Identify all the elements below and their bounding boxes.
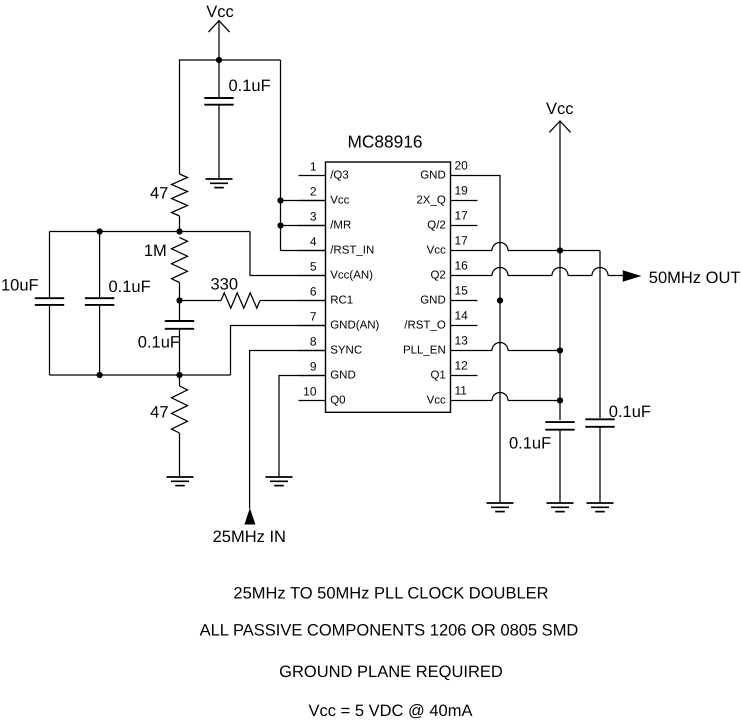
ground (pin 9): [266, 477, 293, 486]
ground (below C6): [547, 503, 574, 512]
wire pin 11 Vcc: [478, 400, 493, 402]
pin 17 Q/2 (right): [451, 225, 478, 227]
svg-text:330: 330: [211, 276, 239, 294]
pin 15 GND (right): [451, 300, 478, 302]
pin 16 Q2 (right): [451, 275, 478, 277]
svg-text:Q/2: Q/2: [427, 220, 446, 232]
wire pin 16 Q2 output: [478, 275, 493, 277]
wire pin 8 SYNC to 25MHz input: [250, 351, 326, 509]
ground (below C1): [206, 179, 233, 188]
wire pin 13 PLL_EN: [478, 350, 493, 352]
junction mid rail / R1-R2: [176, 228, 182, 234]
junction pin 13 / Vcc bus: [557, 347, 563, 353]
svg-text:20: 20: [455, 159, 469, 173]
wire mid rail: [50, 231, 251, 233]
svg-text:/RST_IN: /RST_IN: [330, 245, 374, 257]
wire mid rail to pin 5: [250, 232, 326, 276]
svg-text:5: 5: [310, 260, 317, 274]
svg-text:PLL_EN: PLL_EN: [403, 345, 446, 357]
pin 4 /RST_IN (left): [299, 250, 326, 252]
svg-text:/Q3: /Q3: [330, 170, 349, 182]
pin 1 /Q3 (left): [299, 175, 326, 177]
pin 2 Vcc (left): [299, 200, 326, 202]
svg-text:GND: GND: [330, 370, 356, 382]
svg-text:Vcc: Vcc: [546, 100, 574, 118]
capacitor C7 0.1uF (right decoupling 2): [585, 419, 614, 427]
resistor R4 47 (bottom): [179, 375, 181, 386]
svg-text:6: 6: [310, 285, 317, 299]
junction pin 15 GND / ground bus: [497, 297, 503, 303]
svg-text:19: 19: [455, 184, 469, 198]
svg-text:Q2: Q2: [430, 270, 445, 282]
junction pin 17 / Vcc bus: [557, 247, 563, 253]
capacitor C5 0.1uF (left): [99, 232, 101, 299]
svg-text:GND(AN): GND(AN): [330, 320, 379, 332]
svg-text:/RST_O: /RST_O: [404, 320, 446, 332]
capacitor C3 0.1uF (PLL filter): [179, 301, 181, 322]
svg-text:GND: GND: [420, 295, 446, 307]
svg-text:50MHz OUT: 50MHz OUT: [649, 269, 741, 287]
svg-text:MC88916: MC88916: [348, 132, 423, 152]
svg-text:Vcc: Vcc: [330, 195, 349, 207]
ground (below C7): [587, 503, 614, 512]
node 50MHz OUT output arrow: [623, 270, 642, 281]
svg-text:17: 17: [455, 209, 469, 223]
svg-text:47: 47: [150, 184, 168, 202]
junction mid rail / C2: [97, 228, 103, 234]
svg-text:Vcc: Vcc: [427, 395, 446, 407]
pin 7 GND(AN) (left): [299, 325, 326, 327]
wire pin 17 Vcc: [478, 250, 493, 252]
pin 5 Vcc(AN) (left): [299, 275, 326, 277]
junction bottom rail / C5: [97, 372, 103, 378]
svg-text:2X_Q: 2X_Q: [416, 195, 445, 207]
wire Vcc to pins 2/3/4: [281, 60, 326, 251]
pin 10 Q0 (left): [299, 400, 326, 402]
svg-text:9: 9: [310, 360, 317, 374]
wire pin 9 GND: [279, 376, 326, 478]
svg-text:0.1uF: 0.1uF: [229, 77, 271, 95]
pin 3 /MR (left): [299, 225, 326, 227]
svg-text:SYNC: SYNC: [330, 345, 362, 357]
svg-text:GROUND PLANE REQUIRED: GROUND PLANE REQUIRED: [279, 663, 503, 681]
svg-text:2: 2: [310, 185, 317, 199]
op-amp-style IC U1 MC88916 body: [326, 162, 451, 412]
capacitor C6 0.1uF (right decoupling 1): [545, 422, 574, 430]
svg-text:10uF: 10uF: [1, 276, 39, 294]
pin 19 2X_Q (right): [451, 200, 478, 202]
svg-text:Vcc: Vcc: [206, 3, 234, 21]
svg-text:RC1: RC1: [330, 295, 353, 307]
power symbol Vcc (right): [549, 121, 570, 420]
junction top rail / C1: [216, 57, 222, 63]
svg-text:10: 10: [303, 385, 317, 399]
pin 14 /RST_O (right): [451, 325, 478, 327]
wire bottom rail: [50, 374, 231, 376]
svg-text:14: 14: [455, 309, 469, 323]
ground (pin 20/15 bus): [487, 503, 514, 512]
svg-text:25MHz TO 50MHz PLL CLOCK DOUBL: 25MHz TO 50MHz PLL CLOCK DOUBLER: [233, 584, 548, 602]
junction bottom rail / R4: [176, 372, 182, 378]
capacitor C1 0.1uF (top decoupling): [204, 60, 233, 179]
svg-text:Vcc = 5 VDC @ 40mA: Vcc = 5 VDC @ 40mA: [309, 702, 473, 720]
resistor R1 47 (top): [172, 174, 188, 216]
junction pin 3 /MR: [277, 222, 283, 228]
pin 12 Q1 (right): [451, 375, 478, 377]
pin 9 GND (left): [299, 375, 326, 377]
svg-text:Q1: Q1: [430, 370, 445, 382]
svg-text:12: 12: [455, 359, 469, 373]
svg-text:Q0: Q0: [330, 395, 345, 407]
svg-text:1: 1: [310, 160, 317, 174]
svg-text:17: 17: [455, 234, 469, 248]
wire top rail: [180, 60, 281, 174]
svg-text:Vcc(AN): Vcc(AN): [330, 270, 373, 282]
pin 13 PLL_EN (right): [451, 350, 478, 352]
svg-text:11: 11: [455, 384, 468, 398]
junction R2 / R3 / C3: [176, 297, 182, 303]
svg-text:ALL PASSIVE COMPONENTS 1206 OR: ALL PASSIVE COMPONENTS 1206 OR 0805 SMD: [200, 622, 579, 640]
svg-text:7: 7: [310, 310, 317, 324]
svg-text:47: 47: [150, 404, 168, 422]
svg-text:0.1uF: 0.1uF: [609, 403, 651, 421]
pin 20 GND (right): [451, 175, 478, 177]
svg-text:1M: 1M: [144, 242, 167, 260]
svg-text:25MHz IN: 25MHz IN: [213, 528, 286, 546]
resistor R3 330: [180, 300, 222, 302]
svg-text:13: 13: [455, 334, 469, 348]
wire pin 7 GND(AN): [231, 326, 326, 376]
ground (below R4): [167, 477, 194, 486]
svg-text:0.1uF: 0.1uF: [109, 278, 151, 296]
svg-text:0.1uF: 0.1uF: [138, 334, 180, 352]
svg-text:16: 16: [455, 259, 469, 273]
wire Vcc branch down (right cap): [599, 251, 601, 419]
capacitor C4 10uF: [49, 232, 51, 299]
junction pin 2 Vcc: [277, 197, 283, 203]
pin 6 RC1 (left): [299, 300, 326, 302]
resistor R2 1M: [172, 238, 188, 283]
svg-text:0.1uF: 0.1uF: [509, 435, 551, 453]
pin 8 SYNC (left): [299, 350, 326, 352]
svg-text:/MR: /MR: [330, 220, 351, 232]
svg-text:15: 15: [455, 284, 469, 298]
svg-text:Vcc: Vcc: [427, 245, 446, 257]
wire pin 20 GND to ground bus: [478, 176, 501, 504]
svg-text:3: 3: [310, 210, 317, 224]
node 25MHz IN input arrow: [244, 508, 255, 525]
power symbol Vcc (top left): [208, 21, 229, 60]
pin 11 Vcc (right): [451, 400, 478, 402]
svg-text:GND: GND: [420, 170, 446, 182]
junction pin 11 / Vcc bus: [557, 397, 563, 403]
svg-text:8: 8: [310, 335, 317, 349]
svg-text:4: 4: [310, 235, 317, 249]
pin 17 Vcc (right): [451, 250, 478, 252]
